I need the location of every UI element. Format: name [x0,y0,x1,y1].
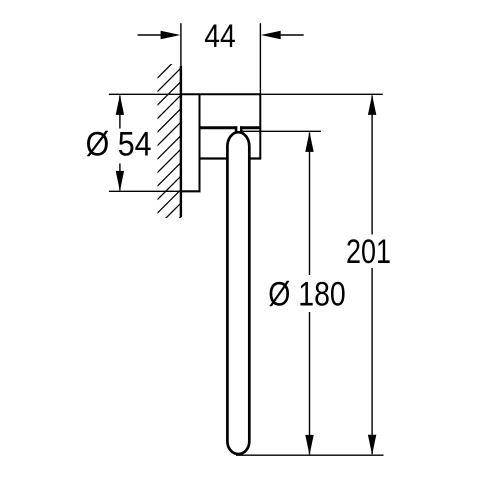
svg-text:44: 44 [204,18,236,54]
holder arm bottom edge [200,157,262,159]
svg-text:201: 201 [346,233,391,271]
dimension 44 line + arrows [138,34,304,36]
horizontal extension line A (Ø54 top / rosette top / 201 top) [109,93,180,95]
extension line 44 left (merges into wall) [180,23,182,67]
dimension Ø180 line + arrows [309,133,311,455]
dimension 201 line + arrows [371,96,373,455]
wall line [180,66,182,217]
holder bar (thick) with hook slot [200,126,238,129]
Ø180 top extension line [242,130,321,132]
svg-text:Ø 180: Ø 180 [268,276,346,314]
wall hatching [151,49,187,261]
holder arm front face [259,94,261,158]
bottom extension line (ring bottom) [236,454,384,456]
rosette bottom / Ø54 bottom extension [109,190,180,192]
dimension Ø54 line + arrows [119,96,121,191]
rosette front edge [199,94,201,191]
hook slot stubs [235,126,238,131]
towel ring (side view, stadium) [227,132,249,454]
svg-text:Ø 54: Ø 54 [86,126,152,164]
extension line 44 right [259,23,261,94]
